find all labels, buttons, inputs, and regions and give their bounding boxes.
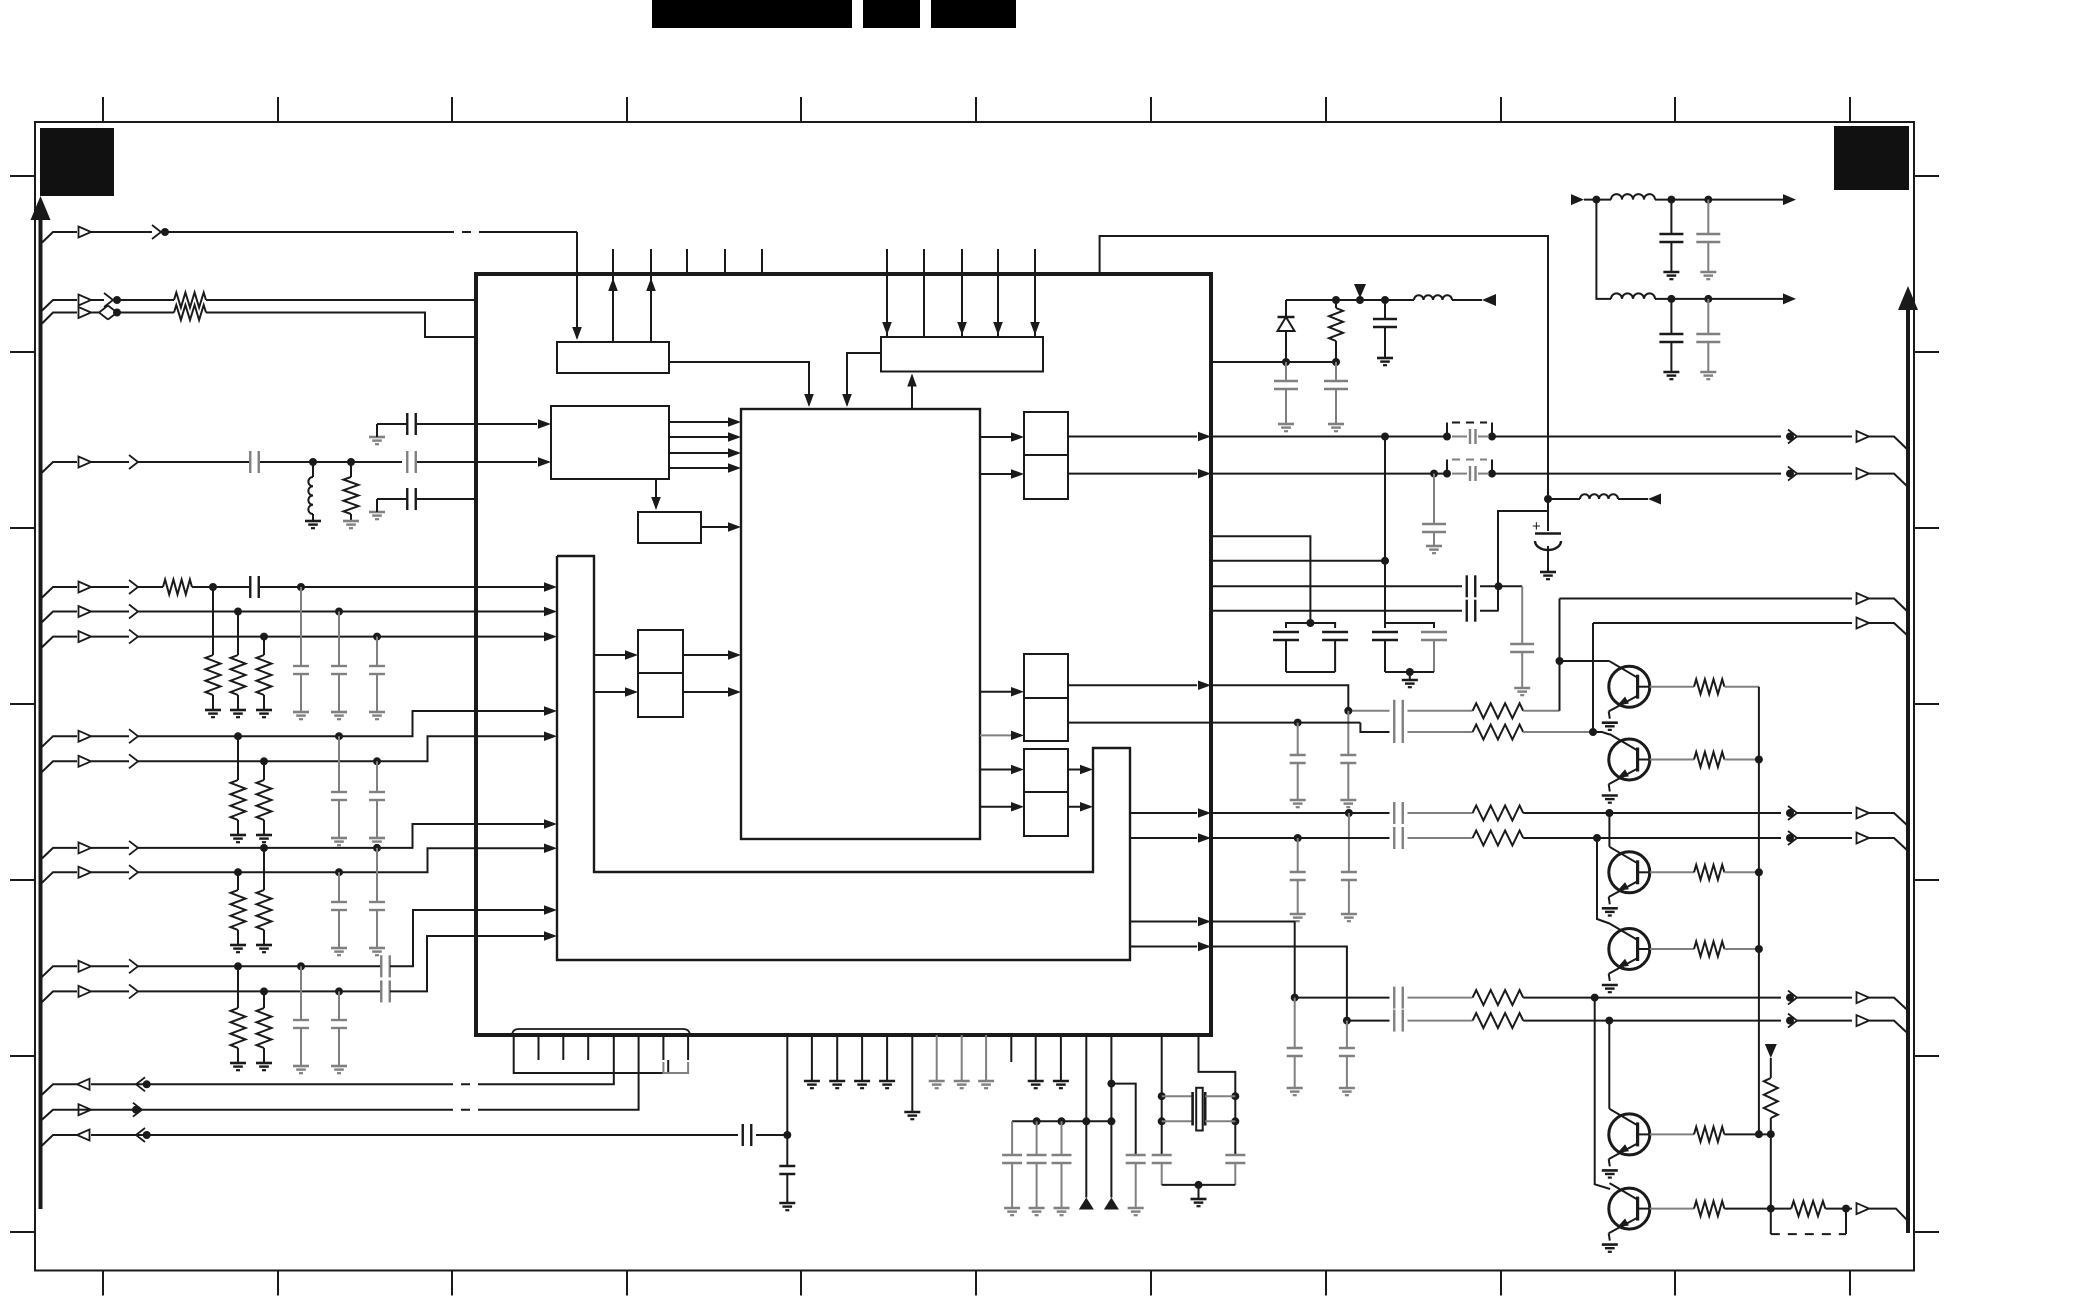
wire [1110, 1121, 1112, 1197]
wire to ground cap [1521, 586, 1523, 644]
frame tick [1914, 1055, 1939, 1057]
frame tick [1914, 527, 1939, 529]
wire dashed segment [445, 1083, 487, 1085]
ground [1700, 271, 1716, 274]
inductor L3 [1611, 194, 1655, 199]
resistor R6 [1473, 703, 1524, 718]
ground [205, 709, 221, 712]
wire [91, 1109, 445, 1111]
pin stub into B2 [923, 249, 925, 337]
ground [804, 1080, 820, 1083]
wire input row [41, 966, 78, 978]
central processor block [741, 409, 980, 839]
node [1544, 495, 1552, 503]
capacitor C36 [1126, 1154, 1146, 1156]
resistor R8 [1473, 806, 1524, 821]
pin stub [724, 249, 726, 274]
capacitor C26 [1393, 802, 1395, 824]
wire Q1 collector [1560, 660, 1610, 662]
wire [206, 313, 476, 338]
pin stub to ground [886, 1035, 888, 1081]
wire output row3 [1211, 812, 1390, 814]
crystal X1 [1162, 1095, 1193, 1097]
arrow into P1 [1011, 469, 1024, 479]
arrow into central block [728, 687, 741, 697]
wire [1492, 473, 1781, 475]
pin stub to ground [1060, 1035, 1062, 1081]
ground [1278, 423, 1294, 426]
wire riser to Q6 [1595, 998, 1611, 1189]
arrow into stair block [544, 931, 557, 941]
wire output row6 [1211, 947, 1347, 1021]
wire output row1 [1560, 598, 1853, 600]
wire stair to P2 [594, 654, 634, 656]
ground [1128, 1207, 1144, 1210]
frame tick [1150, 1271, 1152, 1296]
chevron [1788, 831, 1797, 845]
wire into B1 [576, 232, 578, 338]
ground [1663, 371, 1679, 374]
capacitor to ground [338, 736, 340, 792]
wire dashed segment [445, 231, 487, 233]
wire [1408, 997, 1473, 999]
resistor to ground [237, 872, 239, 890]
ground [369, 947, 385, 950]
arrow into stair block [544, 706, 557, 716]
optional capacitor C15 dashed [1446, 423, 1448, 434]
capacitor C22 [1393, 700, 1395, 722]
resistor R11 [1473, 1013, 1524, 1028]
wire [117, 299, 174, 301]
connector input [79, 606, 92, 617]
wire riser [1559, 599, 1561, 711]
capacitor C32 [1393, 1010, 1395, 1032]
wire [138, 711, 553, 736]
pin stub to ground [961, 1035, 963, 1081]
frame tick [451, 1271, 453, 1296]
frame tick [1500, 1271, 1502, 1296]
wire P4 output [1068, 806, 1089, 808]
wire row-B2 input [41, 313, 78, 326]
ground [369, 837, 385, 840]
chevron [129, 729, 138, 743]
ground [293, 711, 309, 714]
arrow out of B1 [646, 278, 656, 291]
arrow into central block [728, 650, 741, 660]
resistor to ground [263, 991, 265, 1008]
wire [1770, 1134, 1772, 1209]
frame tick [800, 1271, 802, 1296]
ground [904, 1111, 920, 1114]
connector output [1857, 468, 1870, 479]
resistor to ground [263, 761, 265, 780]
wire [1523, 1020, 1781, 1022]
wire stair output [1130, 812, 1197, 814]
ground [1290, 913, 1306, 916]
inductor L1 [312, 462, 314, 477]
IC U1 outline [476, 274, 1211, 1035]
connector input [79, 457, 92, 468]
chevron [129, 630, 138, 644]
arrow output [1783, 194, 1796, 205]
wire B4 output [701, 526, 737, 528]
wire input row [41, 991, 78, 1003]
frame tick [1150, 97, 1152, 122]
wire input row2 [138, 611, 553, 613]
arrow into B4 [651, 497, 661, 510]
wire B3 output [669, 436, 737, 438]
resistor Q5 base [1650, 1133, 1694, 1135]
wire P2 to central [683, 691, 737, 693]
pin stub down [587, 1035, 589, 1060]
capacitor C20 [1510, 643, 1534, 645]
wire jog [1111, 1084, 1135, 1155]
connector input [79, 986, 92, 997]
wire row-B1 input [41, 300, 78, 312]
wire [1085, 1121, 1087, 1197]
wire input row [41, 587, 78, 599]
wire B3 output [669, 421, 737, 423]
wire input row [41, 848, 78, 860]
pin stub to ground [1035, 1035, 1037, 1081]
wire riser to Q5 [1608, 1021, 1610, 1109]
capacitor C2 [406, 451, 408, 473]
ground [1602, 1169, 1618, 1172]
arrow into B2 [882, 322, 892, 335]
wire [260, 461, 402, 463]
frame tick [10, 703, 35, 705]
ground [1191, 1198, 1207, 1201]
wire row-C input [41, 462, 78, 474]
capacitor C14 [1707, 299, 1709, 334]
wire [1770, 1058, 1772, 1078]
ground [1377, 357, 1393, 360]
bracket under pins [514, 1060, 669, 1073]
chevron [129, 984, 138, 998]
wire [487, 231, 577, 233]
wire [260, 586, 553, 588]
wire [1480, 585, 1522, 587]
wire [1797, 837, 1852, 839]
wire [1409, 672, 1411, 680]
chevron [133, 1103, 142, 1117]
wire B3 output [669, 452, 737, 454]
ground [829, 1080, 845, 1083]
frame tick [10, 351, 35, 353]
wire [138, 990, 381, 992]
pin stub to ground [811, 1035, 813, 1081]
pin stub to ground [936, 1035, 938, 1081]
wire pin to VCO net [1100, 236, 1548, 499]
chevron [1788, 991, 1797, 1005]
wire to bus [1869, 623, 1908, 636]
ground [305, 520, 321, 523]
arrow at IC edge [1198, 681, 1211, 691]
chevron [129, 580, 138, 594]
arrow into B2 [957, 322, 967, 335]
electrolytic capacitor C18 [1547, 499, 1549, 531]
arrow into central block [728, 448, 741, 458]
frame tick [277, 1271, 279, 1296]
transistor Q1 [1609, 666, 1650, 707]
resistor R13 [1791, 1201, 1825, 1216]
wire [1596, 200, 1611, 299]
chevron [129, 959, 138, 973]
pin stub down [687, 1035, 689, 1060]
wire [1162, 1184, 1236, 1186]
capacitor C11 [1670, 200, 1672, 234]
wire to bus [1869, 838, 1908, 851]
wire [417, 423, 537, 425]
connector output [77, 1079, 90, 1090]
connector input [79, 307, 92, 318]
wire central to P3 [980, 734, 1020, 736]
wire riser to Q3 [1608, 813, 1610, 847]
inductor L4 [1611, 293, 1655, 299]
wire L-branch [1498, 511, 1548, 611]
wire to bus [1869, 599, 1908, 613]
wire central to P1 [980, 436, 1020, 438]
connector input [79, 631, 92, 642]
resistor to ground [237, 736, 239, 780]
arrow into stair block [544, 607, 557, 616]
resistor R12 vertical [1764, 1078, 1778, 1118]
frame tick [1500, 97, 1502, 122]
arrow into stair block [1080, 765, 1093, 774]
wire [1523, 731, 1593, 733]
capacitor C24 to ground [1297, 723, 1299, 755]
capacitor to ground [376, 761, 378, 792]
connector output [1857, 618, 1870, 629]
chevron [129, 605, 138, 619]
wire [1408, 731, 1473, 733]
ground [1514, 687, 1530, 690]
frame tick [1914, 351, 1939, 353]
wire P1 output [1068, 473, 1197, 475]
wire rail [1758, 687, 1760, 1134]
wire [1724, 1208, 1791, 1210]
resistor to ground [237, 966, 239, 1008]
frame tick [10, 527, 35, 529]
connector output [1857, 1203, 1870, 1214]
wire [1360, 723, 1389, 732]
ground [978, 1080, 994, 1083]
chevron [129, 841, 138, 855]
wire output row2 [1593, 622, 1852, 624]
arrow into stair block [544, 632, 557, 642]
capacitor C19 [1466, 575, 1468, 597]
ground [954, 1080, 970, 1083]
wire [1408, 837, 1473, 839]
wire [1452, 299, 1482, 301]
frame tick [1914, 703, 1939, 705]
supply arrow down [1765, 1044, 1777, 1058]
ground [1602, 794, 1618, 797]
ground [1290, 799, 1306, 802]
wire Q2 collector [1593, 732, 1610, 735]
chevron [1788, 806, 1797, 820]
wire input row [41, 637, 78, 649]
wire output row [91, 1134, 738, 1136]
frame tick [277, 97, 279, 122]
capacitor C31 to ground [1294, 998, 1296, 1048]
arrow at IC edge [1198, 917, 1211, 926]
wire [138, 965, 381, 967]
capacitor to ground [300, 966, 302, 1020]
capacitor C34 [742, 1124, 744, 1146]
resistor R3 [350, 462, 352, 477]
wire input row [41, 872, 78, 884]
wire to bus [1869, 437, 1908, 451]
connector input [79, 731, 92, 742]
pin stub into B2 [997, 249, 999, 337]
frame tick [1674, 97, 1676, 122]
wire [756, 1134, 787, 1136]
pin stub to ground [836, 1035, 838, 1081]
block B4 [638, 512, 701, 543]
arrow into B3 [538, 419, 551, 429]
capacitor to ground [376, 637, 378, 666]
svg-text:+: + [1532, 518, 1541, 535]
left bus arrow [31, 196, 51, 220]
wire [1655, 199, 1784, 201]
chevron [129, 754, 138, 768]
chevron [1788, 467, 1797, 481]
capacitor C28 [1393, 827, 1395, 849]
capacitor to ground [338, 612, 340, 667]
arrow into B2 [993, 322, 1003, 335]
ground [256, 1062, 272, 1065]
wire stair output [1130, 921, 1197, 923]
wire to bus [1869, 1209, 1908, 1221]
arrow into stair block [544, 582, 557, 592]
connector input A [79, 227, 92, 238]
connector input [79, 1104, 92, 1115]
ground [1339, 1087, 1355, 1090]
wire riser to Q4 [1597, 838, 1610, 924]
pin stub down [662, 1035, 664, 1060]
capacitor C33 to ground [1346, 1021, 1348, 1048]
block B2 [881, 337, 1043, 372]
arrow into P1 [1011, 432, 1024, 442]
wire dashed segment [445, 1109, 487, 1111]
left bus line [39, 218, 43, 1209]
chevron [99, 306, 108, 320]
frame tick [975, 97, 977, 122]
arrow into B2 bottom [907, 374, 917, 387]
wire input row [41, 612, 78, 624]
capacitor C25 [1393, 721, 1395, 743]
resistor R2 [174, 305, 206, 320]
ground [230, 709, 246, 712]
block B3 [551, 406, 669, 479]
ground [230, 944, 246, 947]
capacitor to ground [300, 587, 302, 666]
chevron [108, 306, 117, 320]
ground [1328, 423, 1344, 426]
ground [256, 944, 272, 947]
wire [1584, 199, 1611, 201]
arrow into central block [728, 463, 741, 473]
arrow into stair block [544, 732, 557, 742]
ground [1602, 1243, 1618, 1246]
frame tick [626, 1271, 628, 1296]
wire [1797, 473, 1852, 475]
resistor Q6 base [1650, 1208, 1694, 1210]
chevron [1788, 430, 1797, 444]
wire [1825, 1208, 1852, 1210]
wire [1295, 997, 1390, 999]
right bus line [1906, 308, 1910, 1233]
wire [1770, 1118, 1772, 1134]
wire [138, 824, 553, 848]
frame tick [975, 1271, 977, 1296]
frame tick [1674, 1271, 1676, 1296]
connector output [1857, 593, 1870, 604]
arrow into stair block [544, 905, 557, 915]
border frame [35, 122, 1914, 1271]
resistor base [1650, 948, 1694, 950]
ground [331, 837, 347, 840]
chevron [136, 1128, 145, 1142]
inductor L5 [1548, 498, 1580, 500]
capacitor C37 [1152, 1154, 1172, 1156]
wire [206, 299, 476, 301]
frame tick [1849, 97, 1851, 122]
wire to bus [1869, 474, 1908, 487]
wire output row [1211, 473, 1447, 475]
wire central to P1 [980, 473, 1020, 475]
ground [256, 834, 272, 837]
ground [1663, 271, 1679, 274]
capacitor C30 [1393, 987, 1395, 1009]
frame tick [451, 97, 453, 122]
connector output [1857, 431, 1870, 442]
connector output [1857, 1015, 1870, 1026]
wire [1523, 710, 1559, 712]
ground [343, 520, 359, 523]
wire [138, 848, 553, 872]
ground [293, 1065, 309, 1068]
ground [1287, 1087, 1303, 1090]
redacted grid label top-left [40, 128, 114, 196]
pin stub down [1085, 1035, 1087, 1121]
arrow into P2 [625, 650, 638, 660]
wire [91, 1083, 445, 1085]
supply arrow down [1354, 284, 1366, 298]
chevron [152, 225, 161, 239]
arrow output [1783, 293, 1796, 304]
wire stair output [1130, 946, 1197, 948]
capacitor to ground [1011, 1121, 1013, 1155]
wire output row [1211, 436, 1447, 438]
ground [854, 1080, 870, 1083]
brace over pin group [512, 1029, 690, 1036]
frame tick [102, 1271, 104, 1296]
wire input row [41, 736, 78, 748]
redacted title bar [931, 0, 1016, 28]
arrow into central block [728, 522, 741, 532]
pin stub up [650, 249, 652, 342]
block P1 divider [1024, 454, 1068, 456]
wire row-A input [41, 232, 78, 244]
wire [192, 586, 249, 588]
wire B1 to central block [669, 362, 809, 405]
capacitor C10 to ground [1335, 362, 1337, 381]
wire output row4 [1211, 837, 1390, 839]
frame tick [1849, 1271, 1851, 1296]
wire row to Q1 chain [1211, 685, 1348, 711]
